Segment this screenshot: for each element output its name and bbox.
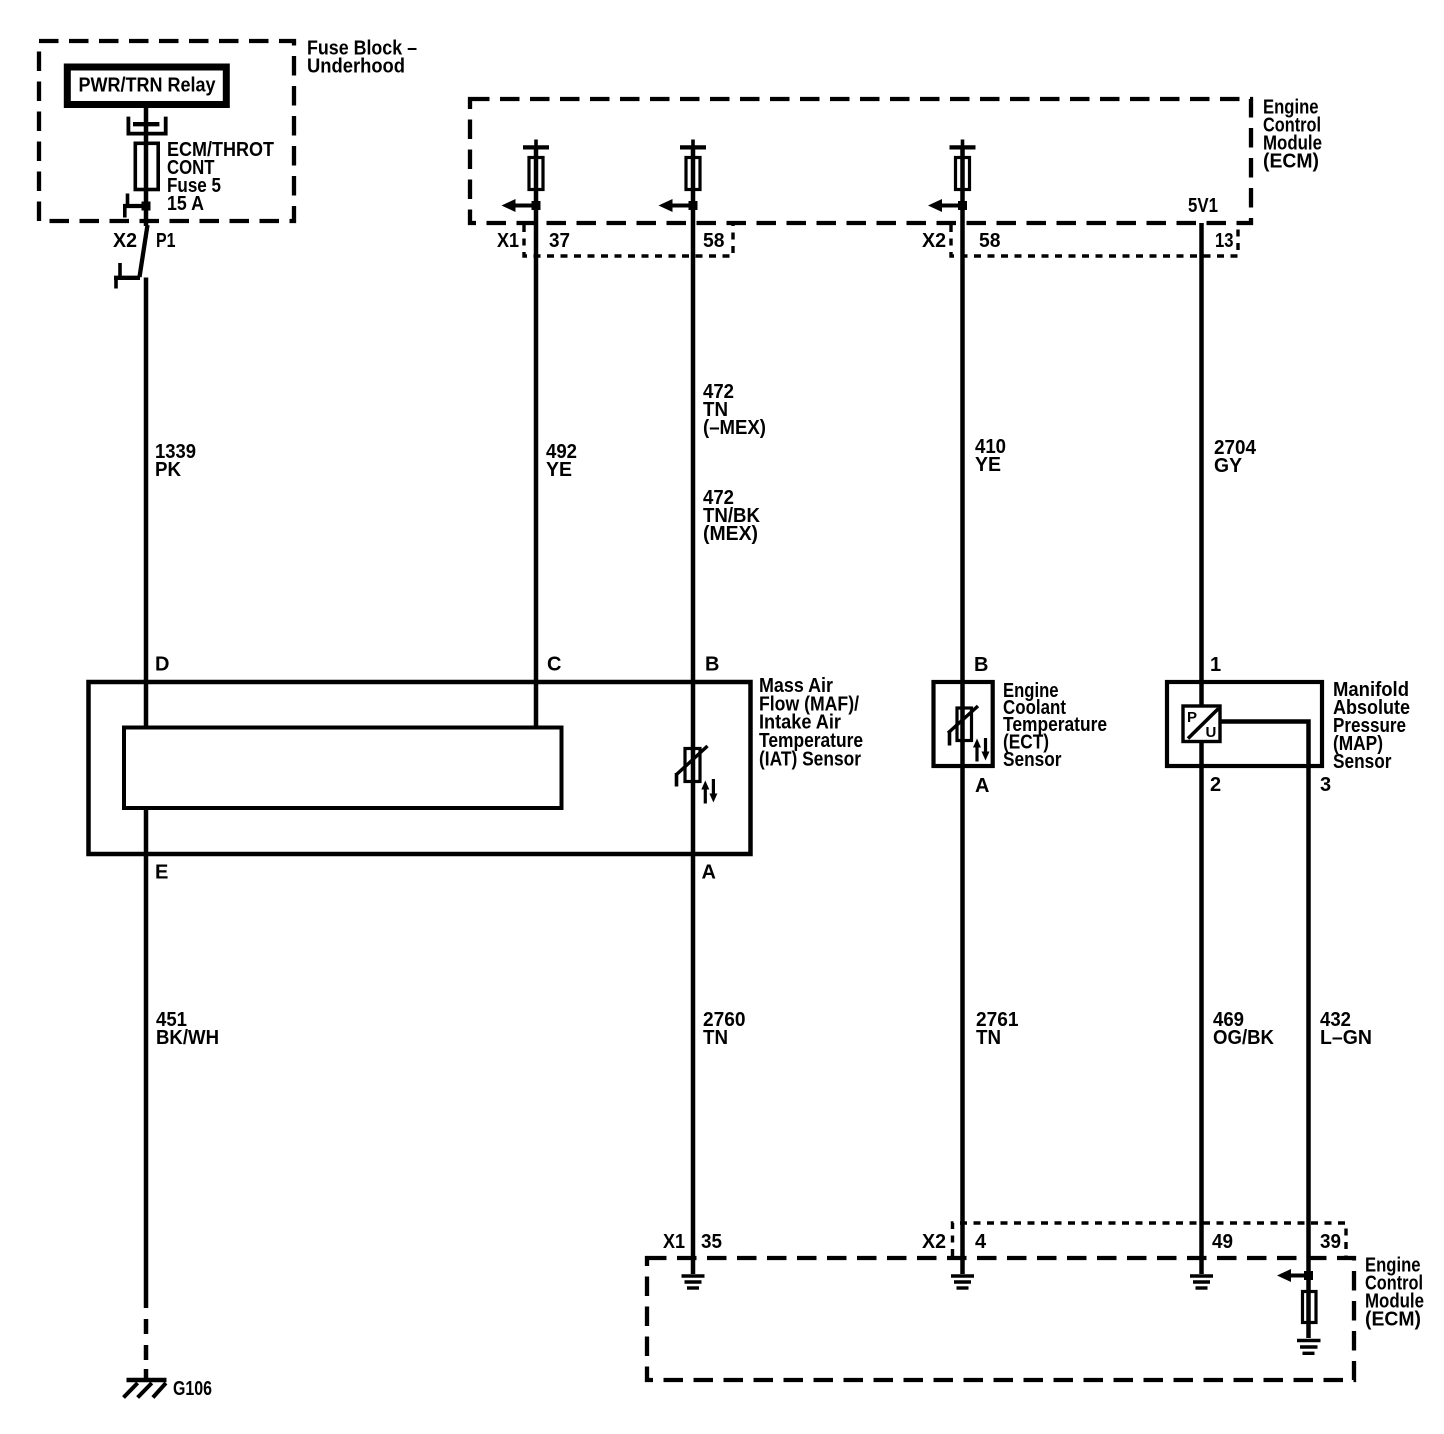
svg-text:2: 2 [1210,774,1221,796]
svg-text:A: A [702,862,716,884]
ECT sensor box [934,682,993,766]
svg-text:PWR/TRN Relay: PWR/TRN Relay [79,75,217,97]
wire relay to fuse 5 [144,104,149,226]
wire 492 YE label [546,441,577,481]
resistor inside ECM at pin 39 [1303,1292,1317,1323]
svg-text:X2: X2 [922,1231,946,1253]
wire from P/U to pin 3 [1220,722,1309,1276]
svg-text:X2: X2 [922,230,946,252]
junction at fuse 5 output [142,202,151,211]
MAP transducer P/U box [1183,706,1220,742]
svg-text:G106: G106 [173,1378,212,1400]
svg-text:13: 13 [1215,230,1234,252]
ECM bottom label [1365,1255,1424,1331]
wire pin 39 to ground [1306,1276,1311,1339]
svg-text:(ECM): (ECM) [1365,1309,1421,1331]
ground at pin 4 [951,1276,974,1288]
fuse F5 label [167,139,274,215]
ECM top label [1263,97,1322,173]
svg-text:58: 58 [979,230,1001,252]
connector X2 terminal upper [123,194,146,218]
connector X2 P1 labels [113,230,176,252]
svg-text:Sensor: Sensor [1003,749,1062,771]
IAT thermistor body [677,746,708,787]
arrow at pin 37 [502,199,537,212]
ECT thermistor down arrow [982,738,990,761]
ECT sensor name [1003,680,1107,771]
fuse clip blade crossbar [133,122,159,126]
ECM top pin labels [497,230,1234,252]
ground below resistor pin 39 [1297,1341,1321,1354]
svg-text:Sensor: Sensor [1333,751,1392,773]
arrow at pin 58 X2 [928,199,963,212]
MAF/IAT sensor outer box [89,682,751,854]
svg-text:(IAT) Sensor: (IAT) Sensor [759,748,861,770]
svg-text:TN: TN [976,1027,1001,1049]
IAT thermistor up arrow [701,781,709,804]
svg-text:YE: YE [975,454,1001,476]
svg-text:39: 39 [1320,1231,1341,1253]
svg-text:U: U [1206,724,1217,741]
svg-text:E: E [155,862,168,884]
fuse clip bracket [128,117,165,134]
fuse block underhood dashed box [39,41,294,221]
svg-text:GY: GY [1214,455,1243,477]
ground at pin 35 [682,1276,705,1288]
svg-text:X1: X1 [497,230,519,252]
svg-text:(–MEX): (–MEX) [703,417,766,439]
svg-text:YE: YE [546,459,572,481]
wire 410 YE segment [960,147,965,1274]
ECM bottom pin labels [663,1231,1341,1253]
MAP pin labels 2 and 3 [1210,774,1331,796]
fuse block label [307,38,417,78]
svg-text:TN: TN [703,1027,728,1049]
svg-text:PK: PK [155,459,182,481]
svg-text:49: 49 [1212,1231,1233,1253]
wire 410 YE label [975,436,1006,476]
connector X1 dotted group box [524,225,733,256]
wire to G106 dashed [144,1319,149,1378]
ECM top dashed box [470,99,1251,223]
chassis ground G106 [124,1380,167,1398]
wire 469 OG/BK label [1213,1009,1275,1049]
svg-text:L–GN: L–GN [1320,1027,1372,1049]
IAT thermistor down arrow [709,779,717,803]
junction pin 58 X1 [689,201,698,210]
svg-text:4: 4 [975,1231,987,1253]
junction pin 58 X2 [958,201,967,210]
MAP pin label 1 [1210,654,1221,676]
svg-text:15 A: 15 A [167,193,204,215]
MAP sensor box [1167,682,1322,766]
connector X2 dotted group box [951,225,1238,256]
arrow at pin 39 [1277,1269,1309,1282]
svg-text:(MEX): (MEX) [703,523,758,545]
wire 2704 GY lower segment pin 2 [1199,743,1204,1274]
ECM internal fuse at pin 58 X2 [950,140,976,190]
ECM internal fuse at pin 37 [523,140,549,190]
wire 2704 GY label [1214,437,1257,477]
net 5V1 label [1188,195,1218,217]
ECT thermistor up arrow [973,739,981,762]
svg-text:58: 58 [703,230,725,252]
svg-text:P: P [1187,709,1197,726]
wire 451 BK/WH label [156,1009,219,1049]
svg-text:BK/WH: BK/WH [156,1027,219,1049]
junction pin 39 [1304,1271,1313,1280]
wire 1339 PK label [155,441,196,481]
svg-text:5V1: 5V1 [1188,195,1218,217]
svg-text:C: C [547,654,561,676]
fuse F5 ECM/THROT CONT 15A body [135,143,158,189]
wire 1339 PK segment [144,278,149,728]
MAP sensor name [1333,679,1410,773]
svg-text:35: 35 [701,1231,722,1253]
svg-text:B: B [705,654,719,676]
ECT thermistor body [948,706,978,746]
wire 472 TN segment [691,147,696,1274]
connector X2 dotted group box bottom [953,1223,1347,1256]
svg-text:P1: P1 [156,230,176,252]
wire 451 BK/WH segment [144,808,149,1308]
connector P1 terminal lower [114,263,140,289]
wire 2760 TN label [703,1009,746,1049]
ECM bottom dashed box [647,1258,1354,1380]
svg-text:A: A [975,775,989,797]
ECM internal fuse at pin 58 X1 [680,140,706,190]
arrow at pin 58 X1 [659,199,694,212]
wire 2704 GY segment [1199,223,1204,705]
wire 472 TN label [703,381,766,439]
MAF/IAT pin labels bottom [155,862,716,884]
wire 2761 TN label [976,1009,1019,1049]
MAF sensor element inner box [124,728,562,809]
wire 432 L-GN label [1320,1009,1372,1049]
connector terminal slant wire [140,225,148,277]
svg-text:X1: X1 [663,1231,685,1253]
relay PWR/TRN Relay [67,67,226,105]
svg-text:D: D [155,654,169,676]
svg-text:Underhood: Underhood [307,56,405,78]
svg-text:3: 3 [1320,774,1331,796]
svg-text:B: B [974,654,988,676]
MAF/IAT pin labels top [155,654,719,676]
ground at pin 49 [1190,1276,1213,1288]
G106 label [173,1378,212,1400]
junction pin 37 [532,201,541,210]
svg-text:OG/BK: OG/BK [1213,1027,1275,1049]
ECT pin label B [974,654,988,676]
svg-text:37: 37 [549,230,570,252]
ECT pin label A [975,775,989,797]
MAF/IAT sensor name [759,675,863,770]
wire 472 TN/BK label [703,487,761,545]
svg-text:(ECM): (ECM) [1263,151,1319,173]
svg-text:1: 1 [1210,654,1221,676]
wire 492 YE segment [534,147,539,728]
svg-text:X2: X2 [113,230,137,252]
